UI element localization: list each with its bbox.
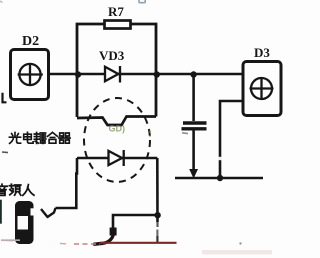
glyph 器: [59, 133, 70, 143]
wire top horizontal with R7: [77, 24, 156, 117]
capacitor C plates: [182, 123, 207, 129]
node junction bus (220,178): [217, 175, 223, 181]
photodiode row lower: [77, 157, 157, 160]
arrow V toward plug: [41, 208, 56, 217]
wire fading tail: [156, 222, 158, 227]
device D3 box: [243, 62, 281, 116]
wire bottom middle: [113, 215, 158, 228]
glyph 入: [23, 185, 34, 196]
svg-text:VD3: VD3: [99, 48, 125, 63]
wire D3 lower to bus: [220, 101, 243, 178]
capacitor lower wire: [192, 131, 195, 172]
pink smudge bottom right: [202, 250, 272, 255]
svg-text:D3: D3: [254, 45, 270, 60]
hook lead: [95, 235, 114, 245]
node junction cap (193.6,74): [190, 71, 196, 77]
device D2 box: [11, 50, 49, 100]
checkbox artifact top: [139, 0, 145, 3]
red underline: [100, 242, 177, 244]
small dark tick under text: [2, 151, 8, 154]
cropped bar left edge: [0, 200, 2, 224]
connector blob: [110, 228, 117, 236]
photocoupler dashed ellipse: [84, 98, 150, 182]
wire scan gap artifact: [219, 157, 222, 160]
node junction (157.5,215): [154, 212, 160, 218]
ground bus: [175, 177, 263, 180]
glyph 耦: [34, 132, 46, 143]
diode VD3: [105, 66, 120, 83]
lamp notch (upper box bottom edge): [77, 117, 156, 126]
glyph 音 (cut at left edge): [0, 184, 7, 195]
capacitor C branch wire upper: [192, 74, 195, 121]
svg-text:R7: R7: [108, 4, 124, 19]
green watermark dash: [149, 130, 151, 137]
corner artifact top-left: [0, 1, 3, 3]
node junction right (156.8,74): [154, 71, 160, 77]
audio plug: [15, 201, 34, 244]
svg-text:GD): GD): [109, 124, 126, 134]
label 光电耦合器: [9, 132, 70, 143]
wire lower-right vertical: [156, 158, 159, 222]
green watermark text: [109, 124, 126, 134]
glyph 光: [9, 133, 20, 144]
photodiode symbol: [109, 150, 124, 166]
glyph 电: [24, 132, 33, 143]
D3 circle-plus: [250, 78, 274, 100]
svg-text:D2: D2: [22, 34, 39, 49]
glyph 合: [48, 132, 58, 143]
resistor R7: [105, 21, 131, 29]
arrowhead at bus: [189, 169, 198, 179]
glyph 频: [9, 184, 20, 195]
label 音频入: [0, 184, 34, 195]
wire lower-left to audio arrow: [56, 158, 78, 208]
D2 circle-plus: [18, 64, 43, 86]
gray dash artifact bottom-left: [1, 239, 20, 241]
smudge under capacitor plate: [182, 132, 188, 135]
wire main row y=74: [49, 73, 244, 76]
cropped corner bracket left: [3, 93, 7, 103]
node junction left (78,74): [75, 71, 81, 77]
